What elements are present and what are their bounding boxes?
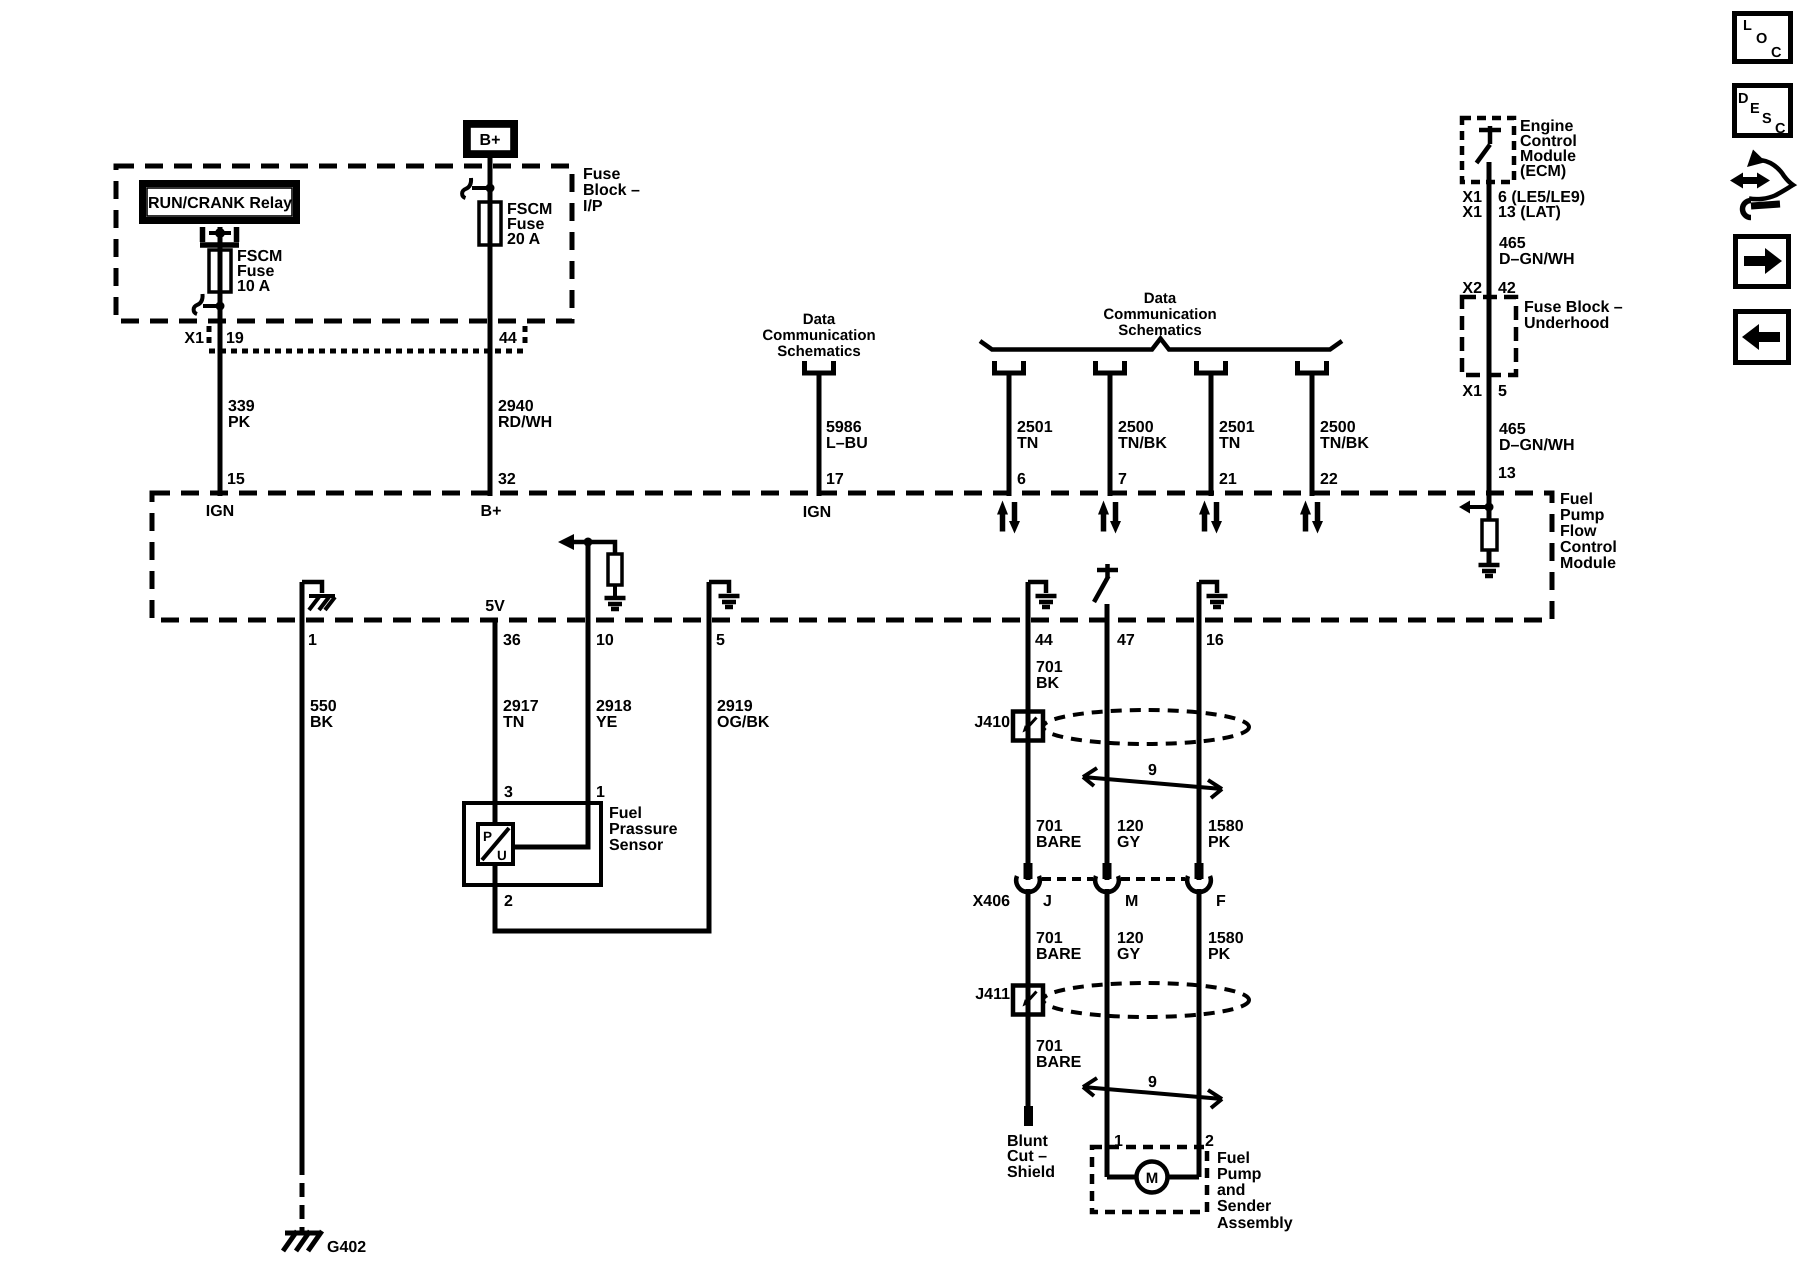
svg-text:B+: B+ [480, 132, 501, 149]
svg-text:42: 42 [1498, 280, 1516, 297]
svg-text:Prassure: Prassure [609, 821, 678, 838]
svg-text:701: 701 [1036, 818, 1063, 835]
svg-text:Module: Module [1560, 555, 1616, 572]
svg-text:1580: 1580 [1208, 818, 1244, 835]
svg-text:BK: BK [1036, 675, 1060, 692]
svg-text:(ECM): (ECM) [1520, 163, 1566, 180]
svg-text:X1: X1 [1462, 383, 1482, 400]
svg-text:TN: TN [1017, 435, 1038, 452]
svg-text:47: 47 [1117, 632, 1135, 649]
svg-text:Assembly: Assembly [1217, 1215, 1293, 1232]
svg-text:L: L [1743, 18, 1752, 34]
svg-text:Fuel: Fuel [609, 805, 642, 822]
svg-text:Sender: Sender [1217, 1198, 1271, 1215]
svg-text:120: 120 [1117, 818, 1144, 835]
svg-text:Pump: Pump [1560, 507, 1605, 524]
svg-text:J411: J411 [975, 986, 1010, 1003]
svg-text:B+: B+ [481, 503, 502, 520]
svg-text:X1: X1 [1462, 204, 1482, 221]
svg-text:Communication: Communication [762, 327, 875, 344]
svg-text:OG/BK: OG/BK [717, 714, 770, 731]
svg-text:701: 701 [1036, 1038, 1063, 1055]
svg-text:120: 120 [1117, 930, 1144, 947]
svg-text:C: C [1775, 121, 1786, 137]
svg-text:C: C [1771, 45, 1782, 61]
svg-text:Sensor: Sensor [609, 837, 663, 854]
svg-text:16: 16 [1206, 632, 1224, 649]
svg-text:TN/BK: TN/BK [1118, 435, 1167, 452]
svg-text:1: 1 [596, 784, 605, 801]
svg-text:IGN: IGN [803, 504, 831, 521]
svg-text:5: 5 [716, 632, 725, 649]
svg-text:1580: 1580 [1208, 930, 1244, 947]
svg-text:9: 9 [1148, 762, 1157, 779]
svg-text:Fuel: Fuel [1217, 1150, 1250, 1167]
svg-text:U: U [497, 848, 507, 863]
svg-text:19: 19 [226, 330, 244, 347]
svg-text:465: 465 [1499, 421, 1526, 438]
svg-text:Schematics: Schematics [777, 343, 860, 360]
svg-text:I/P: I/P [583, 198, 603, 215]
svg-text:M: M [1125, 893, 1138, 910]
svg-text:X406: X406 [973, 893, 1010, 910]
svg-text:Pump: Pump [1217, 1166, 1262, 1183]
svg-text:PK: PK [1208, 834, 1231, 851]
svg-text:6: 6 [1017, 471, 1026, 488]
svg-text:F: F [1216, 893, 1226, 910]
svg-text:701: 701 [1036, 930, 1063, 947]
svg-text:15: 15 [227, 471, 245, 488]
svg-text:32: 32 [498, 471, 516, 488]
svg-text:701: 701 [1036, 659, 1063, 676]
svg-text:PK: PK [228, 414, 251, 431]
svg-text:YE: YE [596, 714, 618, 731]
svg-text:GY: GY [1117, 834, 1140, 851]
svg-text:Fuse Block –: Fuse Block – [1524, 299, 1623, 316]
svg-text:BARE: BARE [1036, 834, 1082, 851]
svg-text:Data: Data [803, 311, 836, 328]
svg-text:550: 550 [310, 698, 337, 715]
svg-text:2: 2 [504, 893, 513, 910]
svg-text:Underhood: Underhood [1524, 315, 1609, 332]
svg-text:L–BU: L–BU [826, 435, 868, 452]
svg-text:J410: J410 [974, 714, 1010, 731]
svg-text:2500: 2500 [1320, 419, 1356, 436]
svg-text:S: S [1762, 111, 1772, 127]
svg-text:O: O [1756, 31, 1767, 47]
svg-text:Shield: Shield [1007, 1164, 1055, 1181]
svg-text:Flow: Flow [1560, 523, 1597, 540]
svg-text:G402: G402 [327, 1239, 366, 1256]
svg-text:10 A: 10 A [237, 278, 271, 295]
svg-text:X2: X2 [1462, 280, 1482, 297]
svg-text:465: 465 [1499, 235, 1526, 252]
svg-text:D–GN/WH: D–GN/WH [1499, 251, 1575, 268]
svg-text:2919: 2919 [717, 698, 753, 715]
svg-text:17: 17 [826, 471, 844, 488]
svg-text:20 A: 20 A [507, 231, 541, 248]
svg-text:D–GN/WH: D–GN/WH [1499, 437, 1575, 454]
svg-text:2917: 2917 [503, 698, 539, 715]
svg-text:TN: TN [503, 714, 524, 731]
svg-text:Block –: Block – [583, 182, 640, 199]
svg-text:Control: Control [1560, 539, 1617, 556]
svg-text:Communication: Communication [1103, 306, 1216, 323]
svg-text:2918: 2918 [596, 698, 632, 715]
svg-text:M: M [1146, 1170, 1159, 1187]
svg-text:2940: 2940 [498, 398, 534, 415]
svg-text:Data: Data [1144, 290, 1177, 307]
svg-text:2501: 2501 [1017, 419, 1053, 436]
svg-text:13 (LAT): 13 (LAT) [1498, 204, 1561, 221]
svg-text:9: 9 [1148, 1074, 1157, 1091]
svg-text:TN/BK: TN/BK [1320, 435, 1369, 452]
svg-text:7: 7 [1118, 471, 1127, 488]
svg-text:5V: 5V [485, 598, 505, 615]
svg-text:21: 21 [1219, 471, 1237, 488]
svg-text:D: D [1738, 91, 1748, 107]
svg-text:5986: 5986 [826, 419, 862, 436]
svg-text:BARE: BARE [1036, 946, 1082, 963]
svg-text:J: J [1043, 893, 1052, 910]
svg-text:Fuse: Fuse [583, 166, 620, 183]
svg-text:3: 3 [504, 784, 513, 801]
svg-text:36: 36 [503, 632, 521, 649]
svg-text:RD/WH: RD/WH [498, 414, 552, 431]
svg-text:BARE: BARE [1036, 1054, 1082, 1071]
svg-text:339: 339 [228, 398, 255, 415]
svg-text:2501: 2501 [1219, 419, 1255, 436]
svg-text:P: P [483, 829, 492, 844]
svg-text:22: 22 [1320, 471, 1338, 488]
svg-text:GY: GY [1117, 946, 1140, 963]
svg-text:13: 13 [1498, 465, 1516, 482]
svg-text:Cut –: Cut – [1007, 1148, 1047, 1165]
svg-text:44: 44 [1035, 632, 1053, 649]
svg-text:PK: PK [1208, 946, 1231, 963]
svg-text:2500: 2500 [1118, 419, 1154, 436]
svg-text:5: 5 [1498, 383, 1507, 400]
svg-text:Fuel: Fuel [1560, 491, 1593, 508]
svg-text:E: E [1750, 101, 1760, 117]
svg-text:2: 2 [1205, 1133, 1214, 1150]
svg-text:BK: BK [310, 714, 334, 731]
svg-text:1: 1 [308, 632, 317, 649]
svg-text:IGN: IGN [206, 503, 234, 520]
svg-text:and: and [1217, 1182, 1245, 1199]
svg-text:44: 44 [499, 330, 517, 347]
svg-text:RUN/CRANK Relay: RUN/CRANK Relay [148, 195, 292, 212]
svg-text:TN: TN [1219, 435, 1240, 452]
svg-text:X1: X1 [184, 330, 204, 347]
svg-text:10: 10 [596, 632, 614, 649]
